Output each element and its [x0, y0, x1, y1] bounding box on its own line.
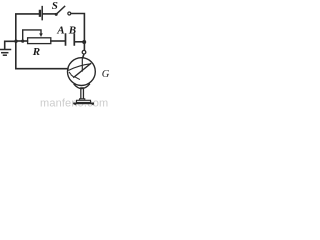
switch right contact circle	[68, 12, 71, 15]
meter dash 1	[69, 72, 70, 74]
galvanometer circle	[68, 58, 96, 86]
junction dot left wire	[14, 40, 17, 43]
wiper arrowhead	[39, 33, 43, 37]
svg-text:S: S	[52, 0, 58, 12]
plate B	[73, 34, 75, 45]
wire rheostat to plate A	[51, 40, 65, 42]
switch left contact dot	[55, 13, 58, 16]
svg-text:A: A	[56, 24, 64, 36]
ground bar1	[0, 49, 10, 51]
svg-text:R: R	[32, 46, 40, 58]
meter dash 3	[76, 77, 80, 79]
junction dot right wire B	[82, 40, 86, 44]
galvanometer top terminal circle	[82, 50, 86, 54]
svg-text:B: B	[68, 24, 76, 36]
ground stub	[5, 41, 16, 49]
wire plate B to junction	[75, 41, 84, 43]
meter needle	[74, 64, 91, 78]
plate A	[65, 34, 67, 45]
battery short plate (negative)	[39, 11, 41, 16]
svg-text:G: G	[102, 69, 110, 80]
meter scale arc	[69, 64, 91, 70]
stand upper bar	[77, 100, 91, 102]
rheostat body R	[28, 38, 51, 44]
switch blade	[56, 6, 64, 14]
base foot right	[91, 103, 93, 105]
wire battery to switch	[43, 13, 56, 15]
wire bottom from left corner to meter	[16, 68, 68, 70]
ground bar3	[4, 54, 7, 56]
galvanometer cradle arc	[74, 84, 90, 89]
stand base line	[73, 102, 94, 104]
wire switch to top-right corner and down	[71, 14, 85, 51]
wire top-left horizontal	[16, 14, 39, 69]
galvanometer terminal stub	[83, 54, 84, 58]
wire left junction to rheostat	[16, 40, 28, 42]
meter zero line	[81, 58, 83, 71]
galvanometer stand stem	[81, 88, 84, 100]
battery long plate (positive)	[41, 7, 43, 20]
ground bar2	[2, 52, 8, 54]
stand collar	[80, 99, 85, 101]
base foot left	[74, 103, 76, 105]
meter dash 2	[71, 75, 74, 77]
junction dot wiper	[21, 40, 24, 43]
rheostat wiper arm	[23, 30, 41, 41]
